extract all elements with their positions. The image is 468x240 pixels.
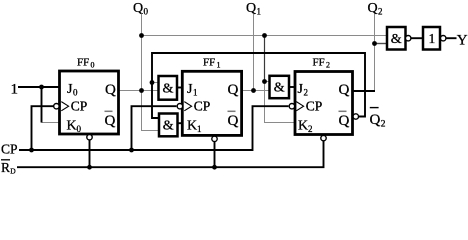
svg-text:2: 2	[304, 88, 309, 98]
flip-flop FF2 box	[295, 72, 353, 135]
flip-flop FF2 pin J2	[298, 82, 309, 98]
flip-flop FF0 label	[77, 57, 95, 70]
wire RD rail and FF2 RD riser	[17, 141, 324, 167]
svg-text:CP: CP	[71, 99, 88, 114]
junction dot RD rail FF0	[87, 165, 92, 170]
flip-flop FF1 pin K1	[187, 119, 202, 135]
wire Q2 stub into NAND	[375, 43, 388, 45]
svg-text:1: 1	[429, 31, 436, 46]
NAND gate G4 box	[387, 27, 406, 50]
junction dot Q1 at FF1 Q output	[251, 88, 256, 93]
svg-text:FF: FF	[77, 57, 89, 69]
wire input 1 to J0	[18, 86, 60, 88]
svg-text:Q: Q	[370, 112, 381, 128]
junction dot CP rail FF1	[129, 148, 134, 153]
svg-text:1: 1	[217, 61, 221, 70]
flip-flop FF2 RD bubble	[321, 135, 326, 140]
svg-text:1: 1	[193, 88, 198, 98]
wire K0 input	[42, 122, 60, 124]
node Qbar2 label	[370, 108, 386, 130]
wire inverter output to Y	[446, 37, 457, 39]
svg-text:Q: Q	[228, 113, 239, 129]
wire Q0 vertical drop to K1 AND gate	[142, 14, 160, 131]
flip-flop FF2 pin Qbar	[339, 111, 350, 129]
junction dot Q0 branch at J2 AND input	[262, 79, 267, 84]
wire CP rail and FF2 CP riser	[19, 106, 288, 150]
svg-text:Q: Q	[368, 1, 378, 16]
svg-text:2: 2	[381, 120, 386, 130]
svg-text:K: K	[67, 119, 77, 134]
svg-text:K: K	[187, 119, 197, 134]
flip-flop FF1 box	[182, 71, 241, 135]
input RD label	[1, 160, 16, 176]
flip-flop FF0 pin K0	[67, 119, 82, 135]
svg-text:2: 2	[378, 7, 383, 17]
svg-text:&: &	[163, 82, 174, 97]
flip-flop FF1 label	[203, 57, 221, 70]
inverter G5 output bubble	[441, 36, 446, 41]
wire Q0 horizontal feed to NAND	[142, 35, 388, 37]
svg-text:&: &	[391, 32, 402, 47]
svg-text:2: 2	[308, 124, 313, 134]
svg-text:1: 1	[11, 82, 19, 98]
svg-text:Q: Q	[228, 82, 239, 98]
flip-flop FF1 pin Qbar	[228, 111, 239, 129]
flip-flop FF1 pin J1	[187, 82, 198, 98]
junction dot Q0 top	[139, 33, 144, 38]
wire Q1 vertical	[253, 14, 255, 91]
node Q1 label	[246, 1, 261, 17]
AND gate G3 (J2) box	[270, 76, 290, 98]
wire J2 AND gate output	[289, 86, 295, 88]
junction dot Q0 at FF0 Q output	[139, 88, 144, 93]
flip-flop FF0 CP triangle	[61, 102, 68, 111]
flip-flop FF0 RD bubble	[87, 135, 92, 140]
node Q0 label	[133, 1, 149, 17]
inverter G5 box	[423, 27, 440, 50]
svg-text:Q: Q	[339, 113, 350, 129]
svg-text:CP: CP	[194, 99, 211, 114]
svg-text:Q: Q	[246, 1, 256, 16]
svg-text:&: &	[274, 81, 285, 96]
junction dot Qbar2 at J1 AND input	[150, 80, 155, 85]
node Q2 label	[368, 1, 383, 17]
svg-text:Q: Q	[339, 82, 350, 98]
svg-text:CP: CP	[1, 142, 18, 157]
wire FF1 CP riser	[132, 106, 177, 150]
AND gate G1 (J1) box	[159, 76, 178, 100]
wire FF0 Q output to J1 AND gate	[119, 90, 159, 92]
wire FF0 CP riser	[32, 106, 54, 150]
NAND gate G4 output bubble	[406, 36, 411, 41]
wire Q0 branch down to K2	[264, 36, 266, 82]
wire Qbar2 stub into J1 AND gate	[152, 82, 159, 84]
wire K1 AND gate output	[178, 122, 183, 124]
svg-text:1: 1	[257, 7, 262, 17]
junction dot CP rail FF0	[29, 148, 34, 153]
flip-flop FF2 pin K2	[298, 119, 313, 135]
flip-flop FF1 CP bubble	[177, 104, 182, 109]
svg-text:R: R	[1, 160, 10, 175]
svg-text:2: 2	[326, 61, 330, 70]
wire FF1 Q output to J2 AND gate	[242, 90, 270, 92]
wire NAND output to inverter	[411, 37, 423, 39]
flip-flop FF2 Qbar output bubble	[353, 114, 358, 119]
flip-flop FF1 CP triangle	[184, 102, 191, 111]
svg-text:Q: Q	[105, 82, 116, 98]
svg-text:0: 0	[144, 7, 149, 17]
svg-text:FF: FF	[203, 57, 215, 69]
wire FF0 RD riser	[89, 140, 91, 167]
junction dot RD rail FF1	[212, 165, 217, 170]
flip-flop FF2 label	[313, 57, 331, 70]
wire J1 AND gate output	[177, 87, 182, 89]
AND gate G2 (K1) box	[159, 114, 178, 137]
svg-text:&: &	[163, 119, 174, 134]
svg-text:D: D	[10, 166, 16, 175]
svg-text:CP: CP	[306, 99, 323, 114]
wire FF1 RD riser	[214, 142, 216, 168]
flip-flop FF0 pin J0	[67, 82, 78, 98]
wire input 1 drop to K0	[41, 87, 43, 123]
svg-text:0: 0	[91, 61, 95, 70]
wire FF2 Q output to Q2 line	[353, 90, 376, 92]
svg-text:FF: FF	[313, 57, 325, 69]
wire Q2 vertical	[374, 14, 376, 92]
flip-flop FF2 CP triangle	[296, 102, 303, 111]
wire Q0 stub into J2 AND gate	[264, 81, 270, 83]
junction dot Q2 at NAND input	[372, 41, 377, 46]
svg-text:0: 0	[73, 88, 78, 98]
junction dot Q0 branch top	[262, 33, 267, 38]
flip-flop FF0 CP bubble	[54, 104, 59, 109]
svg-text:Q: Q	[105, 113, 116, 129]
flip-flop FF0 pin Qbar	[105, 111, 116, 129]
junction dot input 1	[39, 85, 44, 90]
svg-text:K: K	[298, 119, 308, 134]
svg-text:0: 0	[77, 124, 82, 134]
svg-text:1: 1	[197, 124, 202, 134]
wire Qbar2 feedback path	[152, 53, 365, 118]
svg-text:Y: Y	[457, 33, 468, 49]
flip-flop FF2 CP bubble	[289, 104, 294, 109]
flip-flop FF0 box	[60, 71, 119, 134]
flip-flop FF1 RD bubble	[212, 136, 217, 141]
